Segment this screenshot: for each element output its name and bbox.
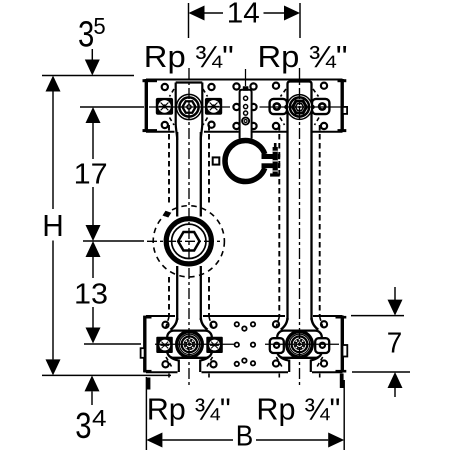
right pipe xyxy=(288,82,312,321)
clamp bolt xyxy=(274,143,277,148)
top rail holes xyxy=(162,83,327,130)
bottom left fitting xyxy=(171,318,208,330)
svg-text:5: 5 xyxy=(93,13,105,39)
dimension B (bottom overall) xyxy=(145,377,147,450)
pipe clamp ring xyxy=(225,141,266,182)
anchor bolt left xyxy=(147,378,151,390)
bottom rail xyxy=(141,316,348,373)
pipe centerlines xyxy=(188,68,190,385)
meter union dashed circle xyxy=(153,206,224,277)
strip centerline above rail xyxy=(245,69,247,86)
clamp left tab xyxy=(213,157,220,164)
svg-text:7: 7 xyxy=(387,327,403,359)
dimension 7 (right, rail height) xyxy=(351,315,404,317)
dimension 17 (left chain) xyxy=(80,106,144,108)
svg-text:B: B xyxy=(236,421,254,450)
bottom rail holes xyxy=(162,321,327,367)
svg-text:17: 17 xyxy=(74,158,108,190)
left pipe xyxy=(177,132,201,320)
top right union ears xyxy=(270,99,287,114)
svg-text:Rp ¾": Rp ¾" xyxy=(147,392,231,427)
dimension H (left overall) xyxy=(42,75,134,77)
bottom rail center hole cluster xyxy=(235,322,256,366)
svg-text:3: 3 xyxy=(78,13,94,54)
svg-text:Rp ¾": Rp ¾" xyxy=(256,392,340,427)
hanger strip xyxy=(240,90,252,139)
meter union body xyxy=(166,219,211,264)
svg-text:14: 14 xyxy=(227,0,260,30)
dimension 14 (top, between pipe centers) xyxy=(189,3,301,38)
svg-text:4: 4 xyxy=(92,405,107,431)
node line at meter center xyxy=(83,240,144,242)
label 3^4 (bottom left) with up arrow xyxy=(85,375,100,391)
svg-text:Rp ¾": Rp ¾" xyxy=(258,39,348,74)
insulation dashed outlines xyxy=(169,125,320,316)
svg-text:13: 13 xyxy=(74,278,108,310)
bottom right fitting xyxy=(281,318,318,330)
svg-text:H: H xyxy=(42,208,64,243)
top rail xyxy=(143,79,348,132)
top right union center xyxy=(287,95,312,120)
anchor bolt right xyxy=(340,374,344,389)
svg-text:3: 3 xyxy=(75,405,91,446)
meter union clip mark xyxy=(163,211,172,218)
dimension 13 (left chain) xyxy=(86,241,101,257)
clamp lugs xyxy=(262,154,274,159)
top left union center xyxy=(176,94,201,119)
insulation flare dashes xyxy=(166,89,324,380)
top left union ears xyxy=(156,98,173,115)
top left union fitting body xyxy=(176,83,203,141)
